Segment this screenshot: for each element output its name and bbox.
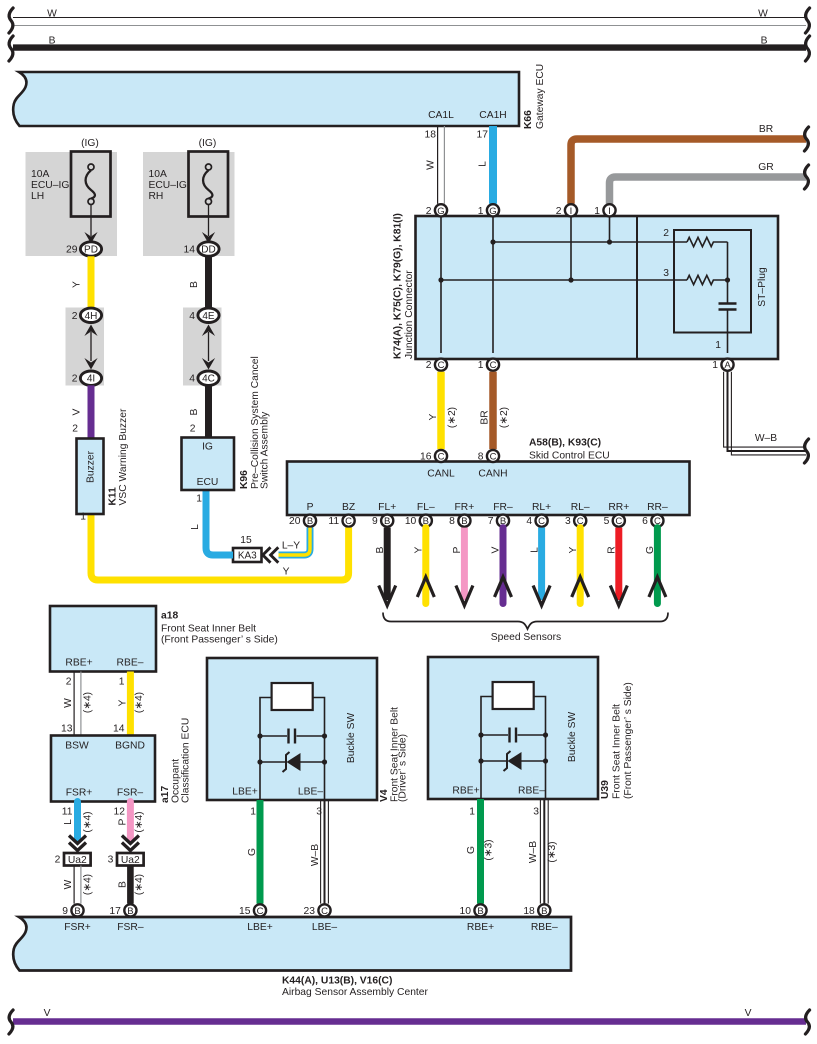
- svg-text:BZ: BZ: [342, 502, 355, 513]
- svg-text:1: 1: [712, 360, 718, 371]
- svg-text:1: 1: [478, 360, 484, 371]
- svg-text:(Front Passenger’ s Side): (Front Passenger’ s Side): [623, 682, 634, 799]
- svg-text:RR+: RR+: [608, 502, 629, 513]
- svg-text:Speed Sensors: Speed Sensors: [491, 632, 561, 643]
- svg-text:3: 3: [316, 807, 322, 818]
- svg-text:(IG): (IG): [199, 138, 217, 149]
- svg-text:LBE+: LBE+: [232, 787, 257, 798]
- svg-text:PD: PD: [84, 245, 98, 256]
- svg-text:K74(A), K75(C), K79(G), K81(I): K74(A), K75(C), K79(G), K81(I): [393, 213, 404, 359]
- svg-text:P: P: [117, 818, 128, 825]
- svg-text:W–B: W–B: [310, 844, 321, 866]
- svg-text:FSR+: FSR+: [66, 788, 93, 799]
- svg-text:B: B: [461, 516, 467, 527]
- svg-text:a17: a17: [160, 786, 171, 803]
- svg-text:B: B: [541, 906, 547, 917]
- svg-text:1: 1: [478, 206, 484, 217]
- svg-text:12: 12: [114, 807, 126, 818]
- svg-text:Front Seat Inner Belt: Front Seat Inner Belt: [612, 704, 623, 799]
- svg-text:RL–: RL–: [571, 502, 590, 513]
- svg-text:FL+: FL+: [378, 502, 396, 513]
- svg-text:DD: DD: [201, 245, 215, 256]
- svg-text:V: V: [491, 546, 502, 553]
- svg-text:W: W: [47, 9, 57, 20]
- svg-text:3: 3: [533, 807, 539, 818]
- svg-text:3: 3: [565, 516, 571, 527]
- svg-text:C: C: [615, 516, 622, 527]
- svg-text:4H: 4H: [85, 311, 98, 322]
- svg-text:Buzzer: Buzzer: [86, 450, 97, 483]
- svg-text:V: V: [72, 408, 83, 415]
- svg-text:(∗3): (∗3): [484, 839, 495, 860]
- svg-text:L–Y: L–Y: [282, 541, 300, 552]
- svg-text:LBE+: LBE+: [247, 922, 272, 933]
- svg-text:2: 2: [190, 424, 196, 435]
- svg-text:4C: 4C: [202, 374, 215, 385]
- svg-text:ECU: ECU: [197, 477, 219, 488]
- svg-text:G: G: [247, 848, 258, 856]
- svg-text:3: 3: [663, 268, 669, 279]
- svg-text:FSR+: FSR+: [64, 922, 91, 933]
- svg-text:W: W: [63, 879, 74, 889]
- svg-text:8: 8: [449, 516, 455, 527]
- svg-text:BR: BR: [480, 410, 491, 424]
- svg-text:I: I: [608, 206, 611, 217]
- svg-text:V: V: [745, 1008, 752, 1019]
- svg-text:(∗4): (∗4): [134, 811, 145, 832]
- svg-text:2: 2: [55, 855, 61, 866]
- svg-text:4E: 4E: [202, 311, 215, 322]
- svg-text:9: 9: [372, 516, 378, 527]
- svg-text:W–B: W–B: [755, 433, 777, 444]
- svg-text:W–B: W–B: [528, 841, 539, 863]
- svg-text:1: 1: [594, 206, 600, 217]
- svg-text:10: 10: [405, 516, 417, 527]
- svg-text:W: W: [758, 9, 768, 20]
- svg-text:2: 2: [426, 206, 432, 217]
- svg-text:L: L: [529, 547, 540, 553]
- svg-text:29: 29: [66, 245, 78, 256]
- svg-text:2: 2: [426, 360, 432, 371]
- svg-text:8: 8: [478, 452, 484, 463]
- svg-text:G: G: [437, 206, 444, 217]
- svg-text:RL+: RL+: [532, 502, 551, 513]
- svg-text:RR–: RR–: [647, 502, 668, 513]
- svg-text:W: W: [63, 698, 74, 708]
- svg-text:GR: GR: [758, 162, 773, 173]
- svg-text:B: B: [49, 35, 56, 46]
- svg-text:(∗2): (∗2): [447, 407, 458, 428]
- svg-text:FSR–: FSR–: [117, 922, 144, 933]
- svg-text:Y: Y: [283, 567, 290, 578]
- svg-text:B: B: [74, 906, 80, 917]
- svg-text:K11: K11: [108, 487, 119, 506]
- svg-text:B: B: [477, 906, 483, 917]
- svg-text:(∗4): (∗4): [82, 811, 93, 832]
- svg-text:18: 18: [523, 906, 535, 917]
- svg-text:RBE+: RBE+: [467, 922, 494, 933]
- svg-text:Y: Y: [72, 281, 83, 288]
- svg-text:11: 11: [62, 807, 73, 818]
- svg-text:R: R: [607, 546, 618, 553]
- svg-text:2: 2: [72, 311, 78, 322]
- svg-text:(∗4): (∗4): [82, 874, 93, 895]
- svg-text:(∗2): (∗2): [499, 407, 510, 428]
- svg-text:C: C: [438, 452, 445, 463]
- svg-text:K66: K66: [523, 110, 534, 129]
- svg-text:17: 17: [477, 130, 489, 141]
- svg-text:15: 15: [239, 906, 251, 917]
- svg-text:Buckle SW: Buckle SW: [567, 712, 578, 763]
- svg-text:1: 1: [469, 807, 475, 818]
- svg-text:LBE–: LBE–: [312, 922, 337, 933]
- svg-text:14: 14: [113, 724, 125, 735]
- svg-text:Gateway ECU: Gateway ECU: [535, 64, 546, 129]
- svg-text:11: 11: [328, 516, 339, 527]
- svg-text:10: 10: [460, 906, 472, 917]
- svg-text:C: C: [490, 452, 497, 463]
- svg-text:CA1H: CA1H: [479, 110, 506, 121]
- svg-text:CANL: CANL: [427, 469, 455, 480]
- svg-text:C: C: [438, 360, 445, 371]
- svg-text:4: 4: [189, 374, 195, 385]
- svg-text:B: B: [189, 408, 200, 415]
- svg-text:BSW: BSW: [65, 741, 89, 752]
- svg-text:1: 1: [80, 512, 86, 523]
- svg-text:Switch Assembly: Switch Assembly: [260, 411, 271, 489]
- svg-text:FL–: FL–: [417, 502, 435, 513]
- svg-text:RBE+: RBE+: [65, 658, 92, 669]
- svg-text:4I: 4I: [87, 374, 95, 385]
- svg-text:C: C: [257, 906, 264, 917]
- svg-text:23: 23: [304, 906, 316, 917]
- svg-text:FR+: FR+: [455, 502, 475, 513]
- svg-text:CA1L: CA1L: [428, 110, 454, 121]
- svg-text:B: B: [384, 516, 390, 527]
- svg-text:B: B: [375, 546, 386, 553]
- svg-text:BGND: BGND: [115, 741, 145, 752]
- svg-text:9: 9: [62, 906, 68, 917]
- svg-text:RBE–: RBE–: [117, 658, 144, 669]
- svg-text:2: 2: [556, 206, 562, 217]
- svg-text:A58(B), K93(C): A58(B), K93(C): [529, 438, 601, 449]
- svg-text:L: L: [63, 819, 74, 825]
- svg-text:I: I: [570, 206, 573, 217]
- svg-text:3: 3: [108, 855, 114, 866]
- svg-text:FR–: FR–: [493, 502, 513, 513]
- svg-text:14: 14: [184, 245, 196, 256]
- svg-text:B: B: [127, 906, 133, 917]
- svg-text:L: L: [190, 524, 201, 530]
- svg-text:4: 4: [189, 311, 195, 322]
- svg-text:1: 1: [119, 677, 125, 688]
- svg-text:G: G: [489, 206, 496, 217]
- svg-text:G: G: [466, 846, 477, 854]
- svg-text:ECU–IG: ECU–IG: [149, 180, 187, 191]
- svg-text:L: L: [478, 161, 489, 167]
- svg-text:(∗4): (∗4): [134, 692, 145, 713]
- svg-text:RBE+: RBE+: [452, 786, 479, 797]
- svg-text:K96: K96: [239, 470, 250, 489]
- svg-text:RBE–: RBE–: [518, 786, 545, 797]
- svg-text:K44(A), U13(B), V16(C): K44(A), U13(B), V16(C): [282, 976, 392, 987]
- svg-text:(Driver’ s Side): (Driver’ s Side): [398, 734, 409, 802]
- svg-text:20: 20: [289, 516, 301, 527]
- svg-text:FSR–: FSR–: [117, 788, 144, 799]
- svg-text:Front Seat Inner Belt: Front Seat Inner Belt: [161, 624, 256, 635]
- svg-text:W: W: [426, 160, 437, 170]
- svg-text:1: 1: [250, 807, 256, 818]
- svg-text:16: 16: [420, 452, 432, 463]
- svg-text:Y: Y: [568, 546, 579, 553]
- svg-text:VSC Warning Buzzer: VSC Warning Buzzer: [118, 408, 129, 505]
- svg-text:B: B: [117, 881, 128, 888]
- svg-text:Junction Connector: Junction Connector: [404, 270, 415, 359]
- svg-text:2: 2: [663, 228, 669, 239]
- svg-text:ST–Plug: ST–Plug: [757, 267, 768, 307]
- svg-text:C: C: [345, 516, 352, 527]
- svg-text:10A: 10A: [149, 169, 167, 180]
- svg-text:4: 4: [526, 516, 532, 527]
- svg-text:B: B: [761, 35, 768, 46]
- svg-text:IG: IG: [202, 442, 213, 453]
- svg-text:5: 5: [604, 516, 610, 527]
- svg-text:15: 15: [240, 535, 252, 546]
- svg-text:Airbag Sensor Assembly Center: Airbag Sensor Assembly Center: [282, 987, 429, 998]
- svg-text:(∗3): (∗3): [547, 841, 558, 862]
- svg-text:C: C: [321, 906, 328, 917]
- svg-text:RH: RH: [149, 191, 164, 202]
- svg-text:(Front Passenger’ s Side): (Front Passenger’ s Side): [161, 635, 278, 646]
- svg-text:2: 2: [72, 424, 78, 435]
- svg-text:17: 17: [109, 906, 121, 917]
- svg-text:ECU–IG: ECU–IG: [31, 180, 69, 191]
- svg-text:a18: a18: [161, 611, 178, 622]
- svg-text:10A: 10A: [31, 169, 49, 180]
- svg-text:KA3: KA3: [238, 551, 257, 562]
- svg-text:G: G: [645, 546, 656, 554]
- svg-text:Y: Y: [414, 546, 425, 553]
- svg-text:BR: BR: [759, 124, 773, 135]
- svg-text:6: 6: [642, 516, 648, 527]
- svg-text:Skid Control ECU: Skid Control ECU: [529, 451, 610, 462]
- svg-text:LH: LH: [31, 191, 44, 202]
- svg-text:1: 1: [196, 494, 202, 505]
- svg-text:Ua2: Ua2: [68, 855, 87, 866]
- svg-text:(∗4): (∗4): [134, 874, 145, 895]
- svg-text:18: 18: [425, 130, 437, 141]
- svg-text:Y: Y: [428, 413, 439, 420]
- svg-text:B: B: [189, 281, 200, 288]
- svg-text:P: P: [452, 546, 463, 553]
- svg-text:13: 13: [61, 724, 73, 735]
- svg-text:1: 1: [715, 340, 721, 351]
- svg-text:2: 2: [66, 677, 72, 688]
- svg-text:(IG): (IG): [81, 138, 99, 149]
- svg-text:Ua2: Ua2: [121, 855, 140, 866]
- svg-text:P: P: [307, 502, 314, 513]
- svg-text:V: V: [44, 1008, 51, 1019]
- svg-text:V4: V4: [379, 789, 390, 802]
- svg-text:(∗4): (∗4): [82, 692, 93, 713]
- svg-text:C: C: [490, 360, 497, 371]
- svg-text:Buckle SW: Buckle SW: [346, 713, 357, 764]
- svg-text:A: A: [724, 360, 731, 371]
- svg-text:2: 2: [72, 374, 78, 385]
- svg-text:Y: Y: [117, 699, 128, 706]
- svg-text:CANH: CANH: [478, 469, 507, 480]
- svg-text:U39: U39: [600, 780, 611, 799]
- svg-text:C: C: [538, 516, 545, 527]
- svg-text:7: 7: [488, 516, 494, 527]
- svg-text:RBE–: RBE–: [531, 922, 558, 933]
- svg-text:B: B: [307, 516, 313, 527]
- svg-text:LBE–: LBE–: [298, 787, 323, 798]
- svg-text:Classification ECU: Classification ECU: [181, 718, 192, 803]
